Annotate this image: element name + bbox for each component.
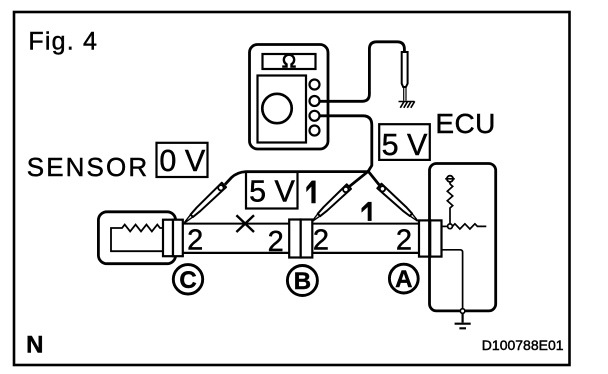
wire: meter jack3 down to probe junction — [320, 116, 372, 172]
meter jack 1 — [310, 80, 320, 90]
harness bottom wire — [183, 252, 419, 254]
svg-text:C: C — [179, 267, 196, 294]
circled terminal A — [389, 264, 418, 293]
svg-text:2: 2 — [313, 225, 329, 257]
node at resistor junction — [448, 224, 453, 229]
connector B — [289, 220, 312, 258]
svg-text:SENSOR: SENSOR — [27, 152, 149, 182]
svg-text:0 V: 0 V — [159, 144, 205, 178]
break mark X on wire C-B — [236, 215, 254, 232]
svg-text:ECU: ECU — [435, 108, 495, 139]
pin label 1 near A — [362, 202, 372, 220]
svg-text:D100788E01: D100788E01 — [482, 337, 564, 353]
connector A — [419, 220, 442, 256]
circled terminal C — [173, 265, 202, 294]
voltage box 0V (sensor) — [157, 143, 208, 177]
svg-text:B: B — [294, 268, 311, 295]
svg-text:Fig. 4: Fig. 4 — [28, 28, 98, 56]
node at ECU bottom — [460, 309, 465, 314]
multimeter dial — [262, 94, 291, 123]
multimeter display panel — [258, 76, 307, 143]
wire: meter jack2 to ground probe — [320, 42, 405, 102]
voltage box 5V (middle) — [246, 172, 298, 209]
svg-text:2: 2 — [268, 226, 284, 258]
svg-text:N: N — [26, 332, 43, 359]
wire node to connector A — [442, 225, 448, 227]
ground probe (vertical test lead) — [402, 52, 408, 87]
svg-text:5 V: 5 V — [382, 128, 428, 162]
multimeter body — [250, 45, 329, 150]
probe at B — [310, 184, 351, 223]
circled terminal B — [287, 266, 317, 296]
probe at C — [182, 183, 226, 225]
multimeter range window — [263, 54, 316, 69]
sensor body — [98, 212, 175, 264]
ground probe needle — [404, 88, 406, 101]
ohm symbol — [282, 55, 296, 67]
meter jack 3 — [310, 111, 320, 121]
pin label 1 near B — [307, 181, 316, 203]
meter jack 4 — [310, 126, 320, 136]
ECU supply terminal — [445, 176, 455, 185]
svg-text:A: A — [395, 266, 412, 293]
ECU series resistor (horizontal zigzag) — [452, 224, 486, 229]
wire: junction to probe A — [368, 171, 380, 186]
connector C — [163, 220, 183, 257]
voltage box 5V (ECU) — [379, 124, 430, 160]
wire: junction to probe C — [225, 172, 368, 185]
wire: junction to probe B — [349, 171, 369, 187]
signal ground hatch — [399, 101, 415, 108]
svg-text:2: 2 — [396, 225, 412, 257]
wire connector A to ECU ground — [442, 250, 463, 309]
probe at A — [377, 184, 420, 224]
ECU ground symbol — [455, 313, 471, 328]
svg-text:5 V: 5 V — [249, 174, 295, 208]
ECU box — [430, 164, 496, 311]
svg-text:2: 2 — [187, 224, 203, 256]
harness top wire — [183, 223, 419, 225]
sensor internal resistor loop — [111, 225, 166, 252]
ECU pull-up resistor (vertical zigzag) — [447, 184, 452, 224]
meter jack 2 — [310, 96, 320, 106]
